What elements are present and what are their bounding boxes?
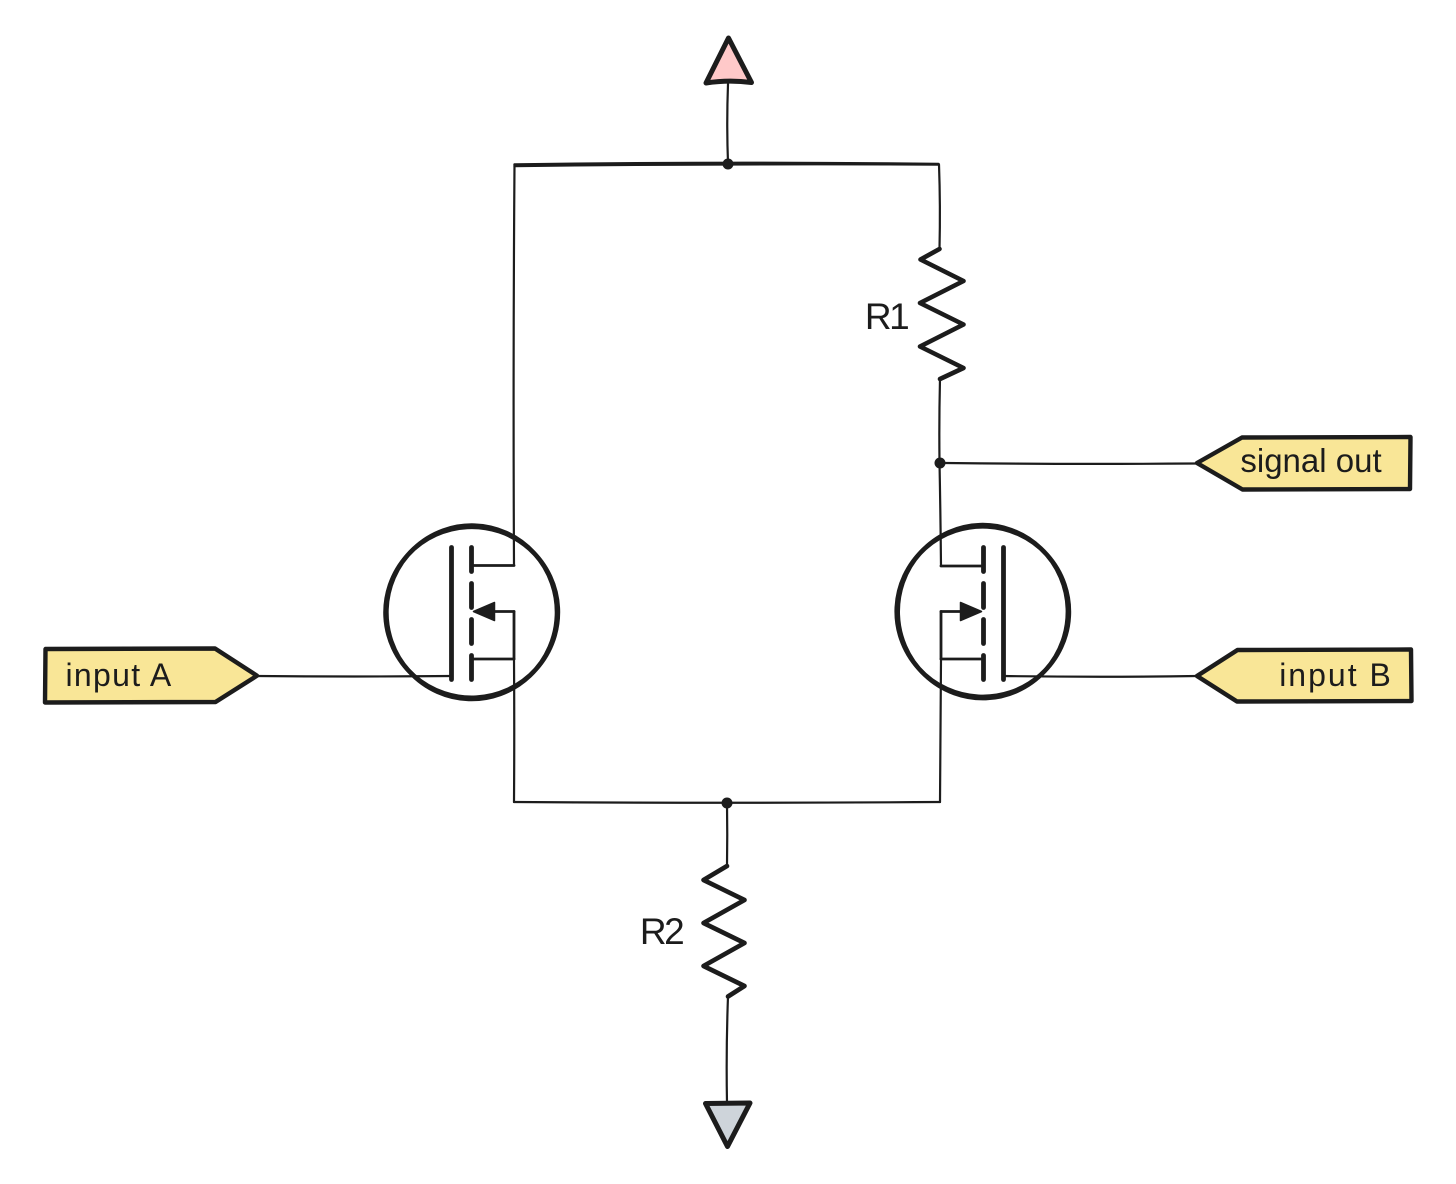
wire bottom rail xyxy=(514,801,940,804)
wire R2 to ground xyxy=(727,997,728,1104)
wire VCC to top rail xyxy=(726,84,729,163)
wire top rail xyxy=(515,163,939,166)
Q2 bulk arrowhead xyxy=(961,603,982,621)
wire bottom node to R2 xyxy=(726,803,728,866)
junction top rail node xyxy=(723,159,734,170)
Q1 bulk arrow line xyxy=(489,610,514,613)
Q2 source stub xyxy=(941,658,983,661)
junction bottom rail node xyxy=(722,798,733,809)
transistor Q2 (right NMOS) xyxy=(892,522,1073,701)
resistor R1 xyxy=(920,249,964,379)
Q1 gate bar xyxy=(449,548,454,680)
resistor R2 xyxy=(704,866,745,997)
wire Q1 source to bottom rail xyxy=(513,659,515,802)
Q2 bulk-source link xyxy=(940,612,943,660)
svg-text:signal out: signal out xyxy=(1240,442,1381,479)
svg-text:input B: input B xyxy=(1279,657,1393,693)
Q2 channel bar (dashed) xyxy=(981,548,986,680)
Q2 drain stub xyxy=(941,565,983,568)
Q1 body circle xyxy=(384,523,560,702)
label R1 xyxy=(865,296,908,337)
flag input A xyxy=(45,649,257,703)
transistor Q1 (left NMOS) xyxy=(381,523,562,703)
wire Q2 source to bottom rail xyxy=(940,659,941,802)
wire left drain (top rail to Q1) xyxy=(512,165,515,566)
Q1 drain stub xyxy=(473,564,515,567)
wire R1 node to Q2 drain xyxy=(940,462,942,566)
power VCC xyxy=(706,38,752,83)
Q1 source stub xyxy=(473,658,515,661)
Q2 body circle xyxy=(895,522,1071,701)
ground xyxy=(706,1103,751,1147)
svg-text:input A: input A xyxy=(66,657,173,693)
wire R1 bottom lead to signal-out node xyxy=(938,379,941,462)
wire input A to Q1 gate xyxy=(257,675,452,678)
wire node to signal out flag xyxy=(945,462,1196,465)
svg-text:R2: R2 xyxy=(640,911,683,952)
flag signal out xyxy=(1197,437,1411,490)
label R2 xyxy=(640,911,683,952)
Q1 bulk arrowhead xyxy=(474,603,495,621)
junction signal-out node xyxy=(935,458,946,469)
Q1 channel bar (dashed) xyxy=(469,548,474,680)
Q2 bulk arrow line xyxy=(941,610,966,613)
wire Q2 gate to input B xyxy=(1004,675,1198,678)
flag input B xyxy=(1197,650,1412,702)
Q2 gate bar xyxy=(1001,548,1006,680)
wire R1 top lead xyxy=(938,165,941,250)
svg-text:R1: R1 xyxy=(865,296,908,337)
Q1 bulk-source link xyxy=(513,612,516,660)
